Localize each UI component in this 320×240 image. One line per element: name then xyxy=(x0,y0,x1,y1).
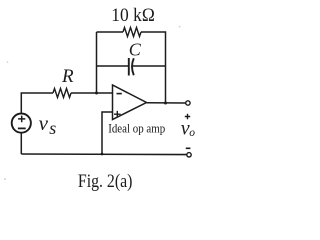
op-amp U1 xyxy=(113,85,147,120)
svg-text:Ideal op amp: Ideal op amp xyxy=(108,121,165,135)
label plus xyxy=(185,114,190,119)
svg-text:C: C xyxy=(129,40,142,60)
wire: capacitor branch right xyxy=(132,65,165,67)
voltage source Vs xyxy=(12,114,31,133)
wire: non-inverting input to ground rail xyxy=(102,112,113,154)
svg-text:o: o xyxy=(189,127,195,139)
wire: feedback left vertical xyxy=(96,32,98,93)
wire: top feedback left segment xyxy=(97,31,124,33)
resistor R xyxy=(53,89,71,98)
output terminal plus xyxy=(186,101,190,105)
resistor 10 kOhm xyxy=(123,28,141,37)
wire: source top to resistor R xyxy=(21,93,53,114)
capacitor C xyxy=(129,58,134,76)
wire: source bottom to ground rail xyxy=(20,133,22,154)
wire: resistor R to op-amp inverting input xyxy=(71,92,113,94)
node A: junction of R, feedback branches xyxy=(95,92,98,95)
wire: op-amp output xyxy=(147,102,186,104)
svg-text:v: v xyxy=(39,111,49,135)
node C: non-inverting ground junction xyxy=(101,153,104,156)
node B: feedback to output junction xyxy=(164,102,167,105)
label minus xyxy=(186,147,191,149)
label vs xyxy=(39,111,57,138)
wire: top feedback right segment xyxy=(141,32,166,103)
wire: bottom ground rail xyxy=(21,153,187,156)
label vo xyxy=(181,118,195,140)
wire: capacitor branch left xyxy=(97,65,129,67)
svg-text:Fig. 2(a): Fig. 2(a) xyxy=(78,171,132,192)
svg-text:s: s xyxy=(49,118,56,138)
output terminal minus xyxy=(187,153,191,157)
svg-text:10 kΩ: 10 kΩ xyxy=(111,5,155,26)
svg-text:R: R xyxy=(61,66,74,87)
